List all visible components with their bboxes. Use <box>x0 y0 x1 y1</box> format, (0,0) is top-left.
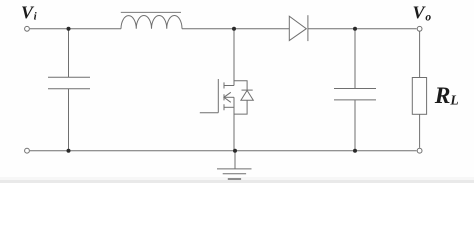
MOSFET Q1 body arrow shaft <box>224 96 234 98</box>
page background <box>0 0 474 183</box>
inductor L1 winding (4 humps) <box>121 16 182 29</box>
MOSFET Q1 source contact tick <box>223 104 225 110</box>
wire top rail right segment <box>308 28 417 30</box>
capacitor C1 input: top lead <box>68 29 70 78</box>
capacitor C2 bottom plate <box>334 99 376 101</box>
MOSFET Q1 drain contact tick <box>223 82 225 88</box>
body diode triangle (points up) <box>241 90 253 100</box>
junction dot bottom rail / ground <box>233 149 237 153</box>
ground stem <box>234 151 236 169</box>
body diode bottom wire <box>234 100 247 114</box>
terminal bottom-left (open circle) <box>25 148 30 153</box>
diode D1 left wire handled by rail; cathode bar <box>307 15 309 41</box>
capacitor C2 bottom lead <box>354 100 356 151</box>
resistor RL body <box>412 78 426 115</box>
wire top rail middle segment <box>182 28 289 30</box>
MOSFET Q1 source wire to bottom rail <box>233 97 235 150</box>
capacitor C1 top plate <box>48 76 90 78</box>
ground bar 1 <box>217 168 252 170</box>
ground bar 3 <box>228 178 241 180</box>
MOSFET Q1 gate line <box>217 79 219 113</box>
MOSFET Q1 body arrow head <box>224 92 231 102</box>
terminal Vo (open circle) <box>417 26 422 31</box>
junction dot top rail / C1 <box>67 27 71 31</box>
MOSFET Q1 body contact tick <box>223 94 225 100</box>
MOSFET Q1 source stub <box>224 106 234 108</box>
capacitor C2 output: top lead <box>354 29 356 89</box>
wire top rail left segment <box>30 28 121 30</box>
body diode cathode bar <box>242 89 253 91</box>
resistor RL top lead <box>419 32 421 78</box>
ground bar 2 <box>223 173 246 175</box>
terminal Vi (open circle) <box>25 26 30 31</box>
MOSFET Q1 drain wire from top rail <box>233 29 235 86</box>
MOSFET Q1 drain stub <box>224 85 234 87</box>
junction dot bottom rail / C2 <box>353 149 357 153</box>
capacitor C1 bottom plate <box>48 88 90 90</box>
capacitor C1 bottom lead <box>68 89 70 151</box>
diode D1 triangle (points right) <box>289 16 306 40</box>
bottom gray band <box>0 177 474 180</box>
inductor L1 core line <box>121 11 181 13</box>
body diode branch top wire <box>234 81 247 90</box>
wire bottom rail <box>30 150 417 152</box>
MOSFET Q1 gate lead <box>200 112 219 114</box>
resistor RL bottom lead <box>419 114 421 148</box>
terminal bottom-right (open circle) <box>417 148 422 153</box>
junction dot top rail / C2 <box>353 27 357 31</box>
junction dot top rail / Q1 drain <box>232 27 236 31</box>
junction dot bottom rail / C1 <box>67 149 71 153</box>
capacitor C2 top plate <box>334 88 376 90</box>
